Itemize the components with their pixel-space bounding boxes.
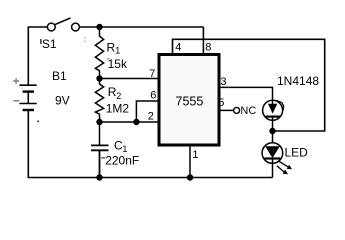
label R1 (107, 41, 121, 56)
battery B1 (20, 85, 37, 110)
stray speck marks from original image (22, 37, 86, 122)
junction node B R2/C1/pin 2 (96, 119, 102, 125)
junction V+ rail / R1 top (96, 24, 102, 30)
svg-text:3: 3 (220, 76, 226, 88)
wire pin 5 NC stub (220, 109, 234, 111)
svg-text:1N4148: 1N4148 (277, 74, 319, 88)
svg-text:1: 1 (192, 149, 198, 161)
wire pin 8 vertical drop (202, 27, 204, 53)
junction pin 1 on ground rail (187, 174, 193, 180)
svg-text:7555: 7555 (176, 95, 204, 109)
resistor R2 (95, 79, 103, 123)
junction diode cathode / LED anode / right rail (269, 128, 275, 134)
junction C1 bottom on ground rail (96, 174, 102, 180)
svg-text:1: 1 (122, 144, 127, 154)
svg-text:6: 6 (150, 90, 156, 102)
svg-text:2: 2 (148, 111, 154, 123)
wire pin 4 branch over to right rail down to diode cathode node (173, 39, 325, 131)
svg-text:15k: 15k (108, 57, 128, 71)
capacitor C1 (91, 122, 109, 178)
wire battery negative down and along bottom ground rail (28, 110, 272, 178)
svg-text:1: 1 (115, 45, 120, 55)
LED D2 (262, 131, 283, 178)
value label 220nF (101, 154, 139, 168)
wire node A to pin 7 (100, 78, 159, 80)
svg-text:NC: NC (240, 105, 256, 117)
wire node B to pin 2 (100, 121, 159, 123)
label S1 (40, 37, 57, 51)
resistor R1 (95, 27, 103, 79)
svg-text:B1: B1 (52, 69, 67, 83)
wire top V+ rail from switch to pin 8 drop (80, 26, 204, 28)
junction node A R1/R2/pin 7 (96, 75, 102, 81)
battery polarity + and - marks (13, 78, 19, 101)
svg-text:7: 7 (149, 68, 155, 80)
NC open-connection circle (234, 107, 240, 113)
junction pin 6 branch on pin 2 wire (133, 119, 139, 125)
svg-text:220nF: 220nF (105, 154, 139, 168)
svg-text:5: 5 (218, 97, 224, 109)
svg-text:R: R (107, 41, 116, 55)
wire pin 1 to ground rail (189, 146, 191, 178)
wire pin 6 branch from pin 2 net (136, 101, 158, 122)
svg-text:2: 2 (116, 91, 121, 101)
wire battery positive up to switch S1 (28, 27, 47, 85)
wire pin 3 output to diode anode (220, 87, 273, 100)
svg-text:8: 8 (205, 41, 211, 53)
diode D1 1N4148 (263, 100, 284, 131)
label C1 (114, 139, 127, 154)
svg-text:9V: 9V (55, 94, 70, 108)
svg-text:LED: LED (285, 146, 309, 160)
svg-text:4: 4 (175, 41, 181, 53)
LED light emission arrows (277, 161, 292, 174)
label R2 (108, 85, 121, 101)
svg-text:S1: S1 (42, 37, 57, 51)
value label 15k (107, 57, 128, 71)
svg-text:1M2: 1M2 (106, 101, 130, 115)
switch S1 (47, 18, 79, 31)
IC U1 7555 timer body (159, 55, 219, 146)
